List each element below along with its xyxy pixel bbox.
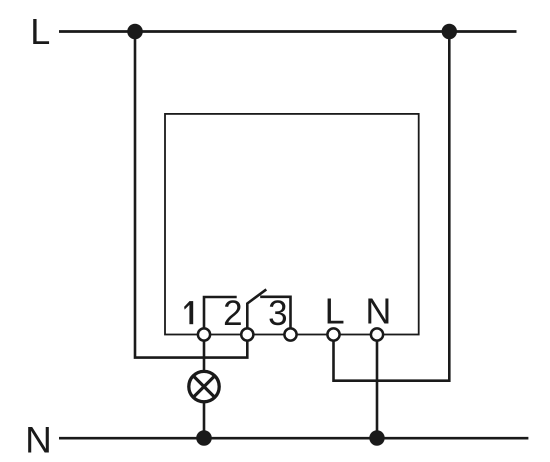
svg-text:2: 2 [223, 294, 242, 333]
svg-text:3: 3 [268, 294, 287, 333]
svg-text:L: L [325, 290, 345, 331]
svg-text:L: L [30, 11, 50, 52]
svg-text:N: N [25, 420, 52, 461]
svg-text:N: N [365, 290, 391, 331]
